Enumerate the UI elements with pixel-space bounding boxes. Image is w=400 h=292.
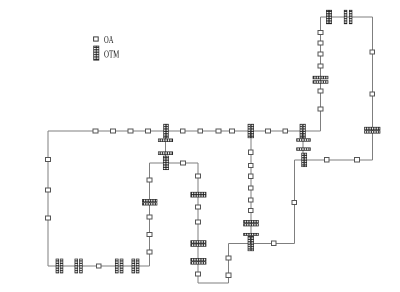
wire y163 horizontal [150, 162, 199, 164]
OA y160 2 [355, 158, 360, 162]
wire top horizontal [321, 16, 373, 18]
wire x198 vertical [197, 163, 199, 283]
legend OA symbol [94, 37, 99, 41]
OA left vertical 3 [46, 216, 51, 220]
OTM station bottom 1 [56, 259, 63, 273]
OA left vertical 1 [46, 157, 51, 161]
OTM station bottom 2 [75, 259, 82, 273]
OA main line 3 [128, 129, 133, 133]
OTM station main x250 [248, 124, 254, 138]
wire x228 vertical [228, 243, 230, 283]
wire y283 horizontal [198, 282, 229, 284]
svg-text:OA: OA [104, 35, 114, 46]
wire branch x251 [250, 131, 252, 243]
OA x198 2 [196, 205, 201, 209]
OTM terminal x165 upper [158, 139, 172, 142]
wire main horizontal trunk [48, 130, 321, 132]
OTM station y243 junction [248, 236, 254, 250]
OA main line 6 [198, 129, 203, 133]
OA inner-left 2 [147, 215, 152, 219]
wire y160 horizontal [294, 159, 372, 161]
OA x251 4 [249, 186, 254, 190]
OA right vertical 2 [370, 92, 375, 96]
OTM station top line B [344, 10, 352, 24]
OTM station main x302 [300, 124, 305, 138]
OA main line 10 [283, 129, 288, 133]
OTM terminal x251 lower [244, 233, 259, 235]
wire branch x302 [302, 131, 304, 160]
OA x228 2 [226, 273, 231, 277]
OA x198 4 [196, 272, 201, 276]
OTM station top line A [326, 10, 331, 24]
OTM station right vertical [365, 127, 381, 133]
OA bottom line [96, 264, 101, 268]
OA x320 2 [318, 41, 323, 45]
OA x251 3 [249, 174, 254, 178]
wire branch x165 [165, 131, 167, 163]
OA x320 6 [318, 107, 323, 111]
OTM station main x165 [164, 124, 169, 138]
OTM station x251 pair [244, 220, 259, 226]
OA main line 7 [216, 129, 221, 133]
OTM station x198 upper [191, 192, 206, 197]
svg-text:OTM: OTM [104, 49, 120, 60]
OA x251 1 [249, 150, 254, 154]
OA inner-left 3 [147, 232, 152, 236]
wire y243 horizontal [229, 242, 295, 244]
OA x320 1 [318, 30, 323, 34]
OA x320 5 [318, 89, 323, 93]
wire inner-left vertical [149, 163, 151, 266]
OA main line 2 [111, 129, 116, 133]
wire x320 vertical [320, 17, 322, 131]
OA inner-left 1 [147, 178, 152, 182]
OA x251 5 [249, 198, 254, 202]
OA x198 1 [196, 174, 201, 178]
OA y160 1 [324, 158, 329, 162]
OTM station x198 middle [191, 241, 206, 247]
OA x228 1 [226, 256, 231, 260]
OA main line 9 [266, 129, 271, 133]
OTM terminal x165 lower [158, 152, 172, 155]
OA inner-left 4 [147, 250, 152, 254]
OA x320 4 [318, 64, 323, 68]
wire bottom horizontal [48, 265, 150, 267]
OA left vertical 2 [46, 188, 51, 192]
OA x198 3 [196, 220, 201, 224]
OA x251 6 [249, 209, 254, 213]
wire left vertical [47, 131, 49, 266]
OA y243 line [272, 241, 277, 245]
OTM terminal x302 lower [297, 148, 311, 151]
wire right vertical [371, 17, 373, 160]
OA main line 1 [93, 129, 98, 133]
OTM station bottom 3 [115, 259, 123, 273]
OA main line 8 [230, 129, 235, 133]
OA x251 2 [249, 163, 254, 167]
OTM station y160 line [302, 153, 307, 167]
OA x320 3 [318, 52, 323, 56]
OTM station x149 [142, 199, 157, 205]
OTM terminal x302 upper [297, 139, 311, 142]
legend OTM symbol [94, 46, 99, 60]
OTM station x198 lower [191, 258, 206, 264]
OA y163 line [181, 161, 186, 165]
wire x294 vertical [293, 160, 295, 244]
OTM station y163 junction [163, 156, 168, 170]
OA right vertical 1 [370, 50, 375, 54]
OA main line 4 [146, 129, 151, 133]
OTM station x320 [313, 76, 328, 83]
OA main line 5 [181, 129, 186, 133]
OA x294 [292, 200, 297, 204]
OTM station bottom 4 [132, 259, 139, 273]
